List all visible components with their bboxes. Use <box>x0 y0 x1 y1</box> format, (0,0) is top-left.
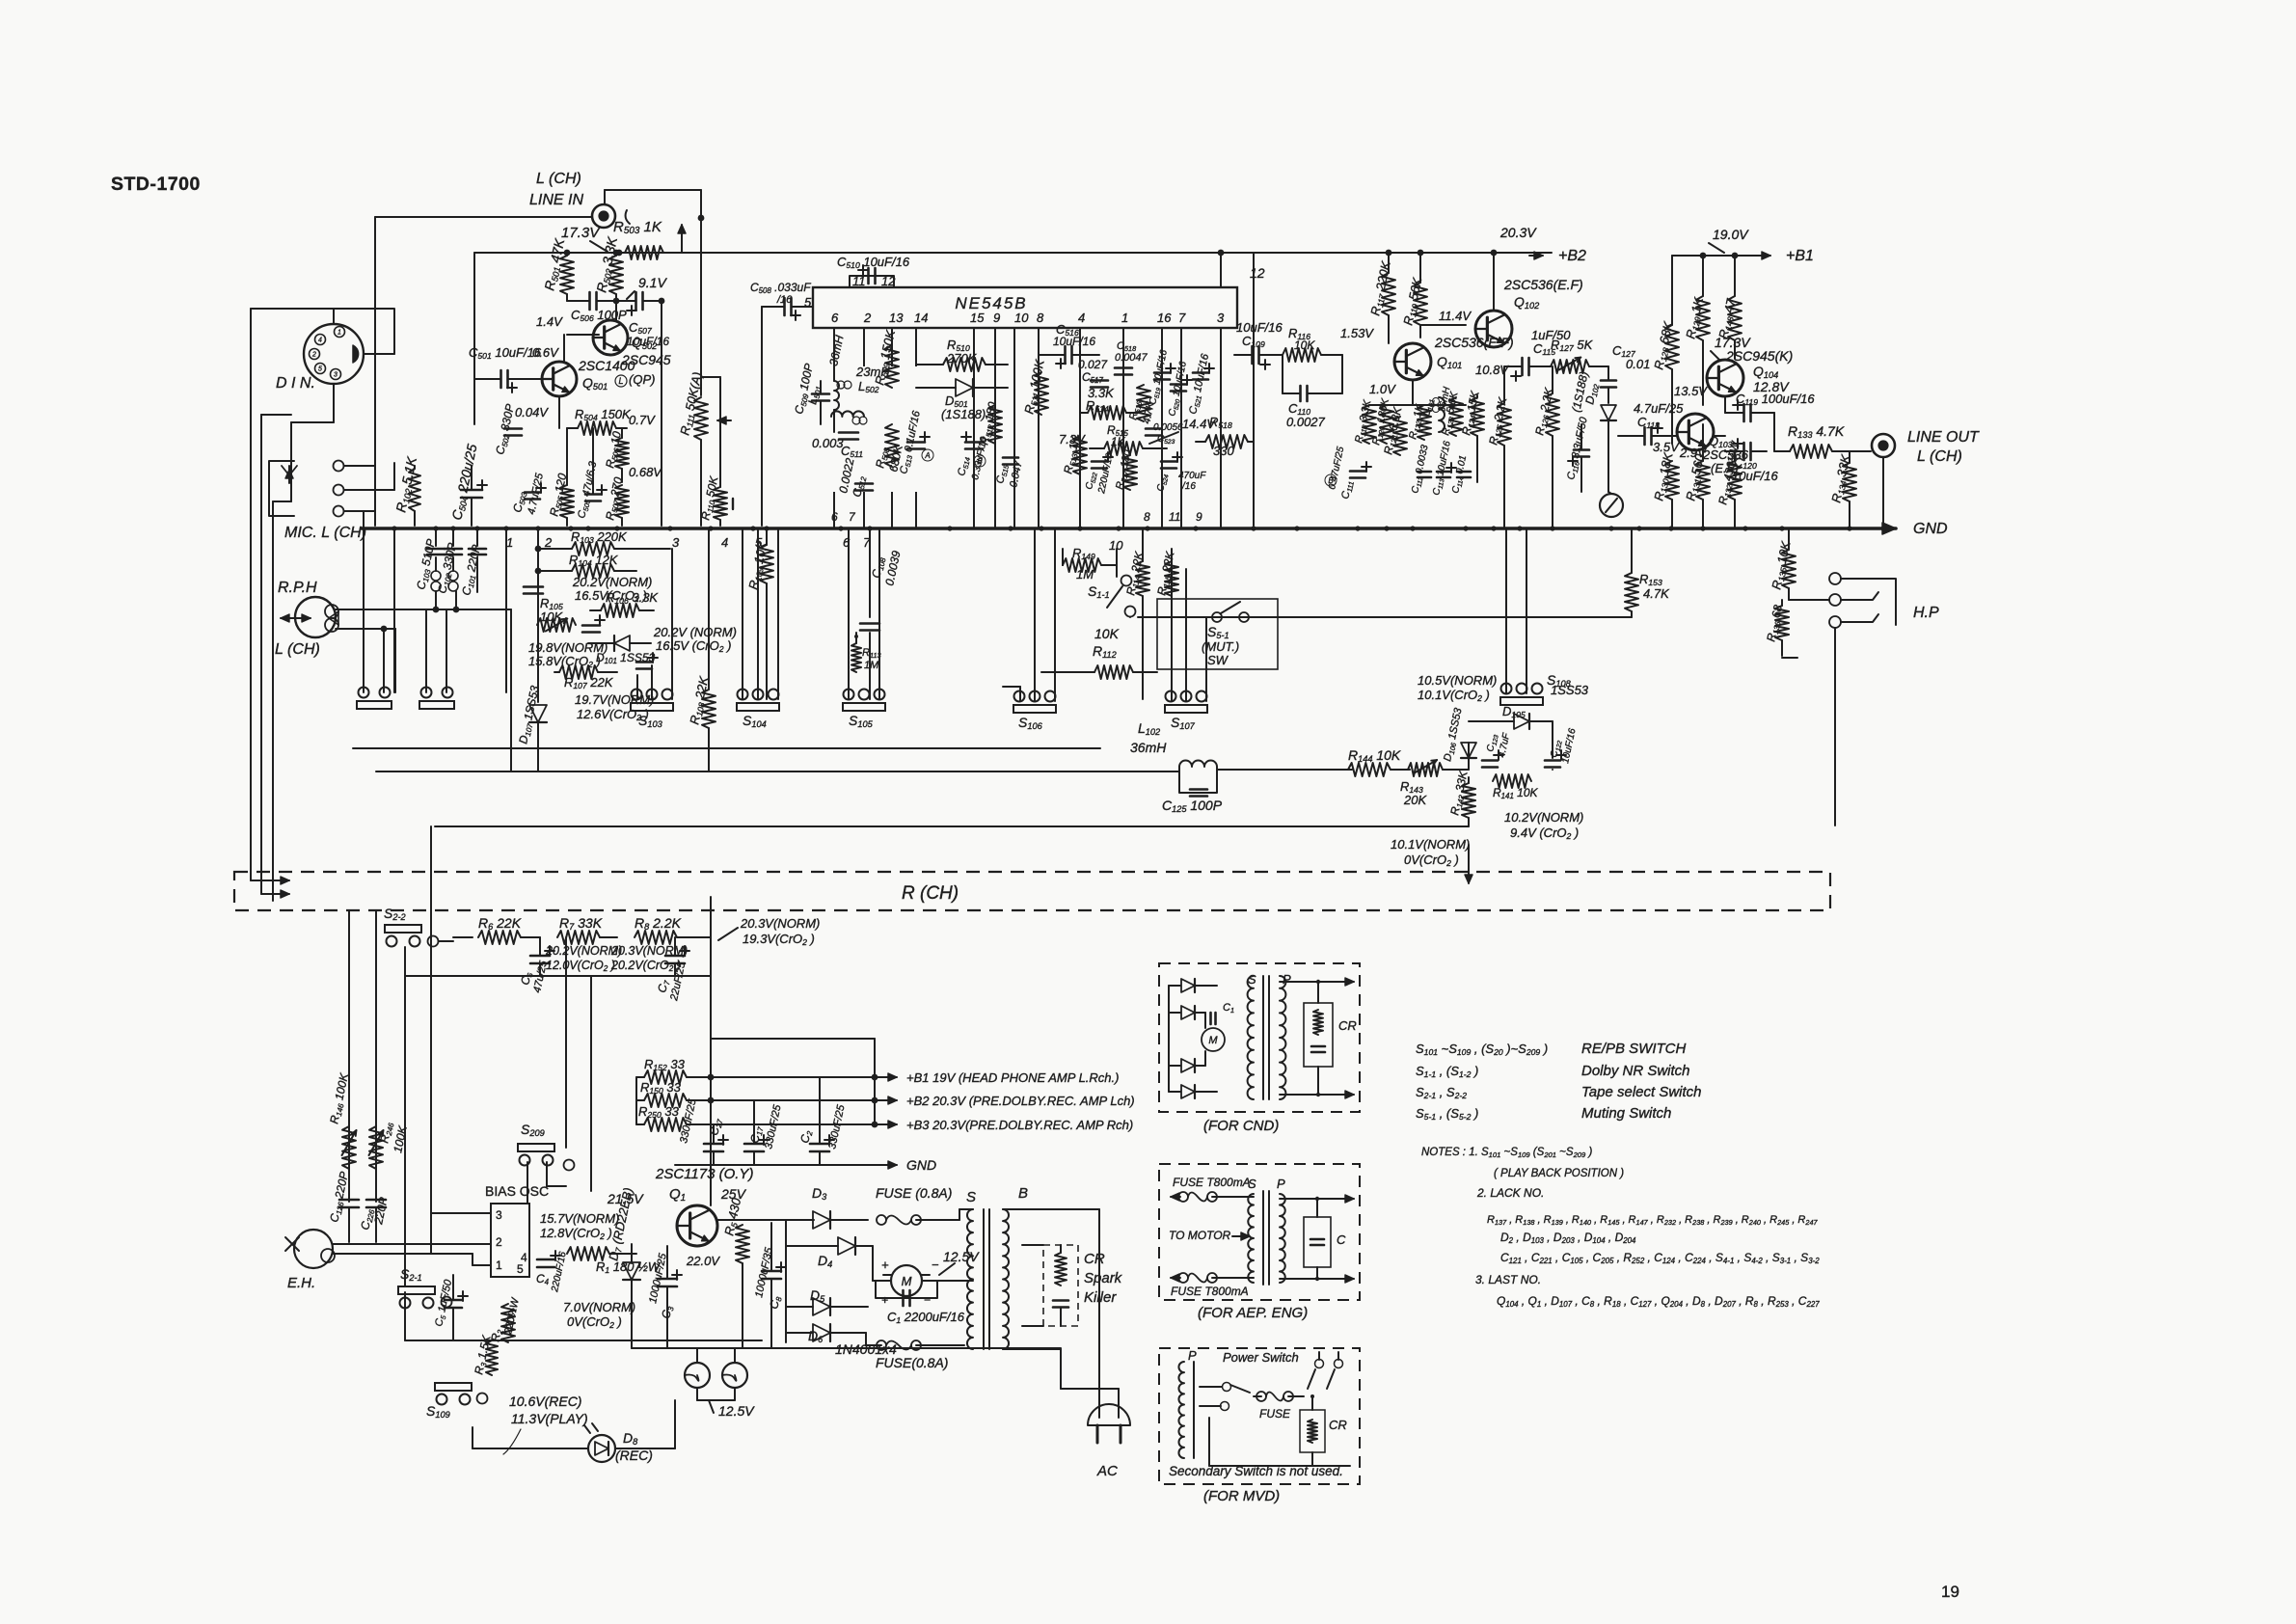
resistor R118 3.3K <box>1363 405 1376 444</box>
svg-text:TO MOTOR: TO MOTOR <box>1169 1229 1231 1242</box>
svg-text:2SC536(E.F): 2SC536(E.F) <box>1503 277 1583 292</box>
resistor R153 4.7K <box>1625 573 1638 611</box>
cnd arrows <box>1280 981 1348 983</box>
diode D105 1SS53 <box>1514 714 1529 729</box>
resistor R245 100K variable <box>369 1126 383 1169</box>
capacitor C102 330P <box>452 528 454 546</box>
svg-text:2SC945: 2SC945 <box>621 352 671 367</box>
wire bias osc pins <box>431 1212 491 1214</box>
capacitor C3 1000uF/25 <box>658 1278 677 1281</box>
resistor R105 10K variable <box>537 618 576 632</box>
svg-text:P: P <box>1283 972 1291 987</box>
resistor R130 18K <box>1665 461 1679 500</box>
capacitor C110 0.0027 <box>1299 386 1302 401</box>
wire under-bus verticals left <box>393 528 395 692</box>
resistor R124 15K <box>1471 397 1484 436</box>
capacitor C107 <box>636 661 652 663</box>
svg-text:5: 5 <box>318 366 322 373</box>
svg-text:3: 3 <box>1217 311 1225 325</box>
meter M1 <box>1600 494 1623 517</box>
capacitor C511 0.003 <box>839 431 858 434</box>
svg-text:10uF/16: 10uF/16 <box>1236 320 1283 335</box>
resistor R502 3.3K <box>609 256 623 294</box>
svg-text:(FOR CND): (FOR CND) <box>1203 1118 1279 1134</box>
resistor R123 5.6K <box>1449 397 1463 436</box>
svg-text:FUSE (0.8A): FUSE (0.8A) <box>876 1185 952 1201</box>
resistor R122 1K <box>1418 405 1431 440</box>
capacitor C501 10uF/16 <box>500 370 502 388</box>
wire diode bridge verticals <box>785 1220 787 1342</box>
capacitor C509 100P <box>812 392 829 395</box>
wire transformer to plug <box>1003 1208 1099 1210</box>
svg-text:FUSE(0.8A): FUSE(0.8A) <box>876 1355 948 1370</box>
svg-text:10.2V(NORM): 10.2V(NORM) <box>1504 810 1583 825</box>
svg-text:2. LACK NO.: 2. LACK NO. <box>1476 1186 1544 1200</box>
svg-text:3: 3 <box>496 1208 502 1222</box>
svg-text:11.3V(PLAY): 11.3V(PLAY) <box>511 1411 588 1426</box>
svg-text:9: 9 <box>993 311 1000 325</box>
resistor R3 1.5K <box>486 1340 498 1375</box>
resistor R517 180 <box>1123 455 1137 490</box>
svg-text:19: 19 <box>1941 1583 1959 1601</box>
svg-text:1: 1 <box>338 330 341 337</box>
svg-text:FUSE T800mA: FUSE T800mA <box>1171 1285 1249 1298</box>
transistor Q1 2SC1173 <box>677 1205 717 1246</box>
svg-text:6: 6 <box>831 311 839 325</box>
capacitor C119 100uF/16 <box>1742 404 1745 421</box>
capacitor C517 0.027 <box>1091 379 1108 382</box>
svg-text:4: 4 <box>318 338 322 344</box>
cnd CR network <box>1304 1003 1333 1067</box>
switch S107 <box>1165 705 1207 713</box>
resistor R134 33K <box>1843 463 1856 501</box>
jack LINE OUT <box>1872 434 1895 457</box>
capacitor C118 4.7uF/25 <box>1643 427 1646 445</box>
cnd P coil <box>1280 976 1285 1099</box>
svg-text:L (CH): L (CH) <box>536 171 581 187</box>
svg-text:−: − <box>932 1258 939 1272</box>
capacitor C515 0.047 <box>1003 456 1018 459</box>
resistor R514 3.3K <box>1088 406 1126 420</box>
resistor R119 56K <box>1414 283 1427 325</box>
svg-text:1M: 1M <box>864 660 879 671</box>
capacitor C109 10uF/16 <box>1251 346 1254 364</box>
svg-text:270K: 270K <box>946 351 978 365</box>
svg-text:+: + <box>881 1293 888 1307</box>
inset FOR MVD dashed box <box>1159 1348 1360 1484</box>
resistor R135 10K <box>1782 550 1796 588</box>
svg-text:7.3V: 7.3V <box>1059 432 1086 447</box>
diode D106 1SS53 <box>1468 743 1470 770</box>
capacitor C7 22uF/25 <box>665 955 685 958</box>
resistor R501 47K <box>560 256 574 294</box>
capacitor C120 10uF/16 <box>1742 443 1745 460</box>
arrow head left <box>281 617 311 619</box>
svg-text:20.3V(NORM): 20.3V(NORM) <box>740 916 820 931</box>
diodes D5 D6 <box>813 1298 830 1315</box>
svg-text:4.7K: 4.7K <box>1643 586 1670 601</box>
svg-text:2SC945(K): 2SC945(K) <box>1725 348 1793 364</box>
switch S104 <box>737 703 779 711</box>
resistor R127 5K variable <box>1551 360 1589 373</box>
resistor R149 1M <box>1063 558 1101 572</box>
svg-text:20.2V (NORM): 20.2V (NORM) <box>653 625 737 639</box>
resistor R136 68 <box>1775 606 1789 640</box>
switch S109 <box>435 1383 472 1391</box>
switch S1-1 dolby <box>1121 576 1132 586</box>
svg-text:+B1: +B1 <box>1786 248 1814 264</box>
svg-text:B: B <box>1018 1185 1028 1202</box>
resistor R133 4.7K <box>1790 445 1832 458</box>
resistor R141 10K <box>1493 774 1531 788</box>
svg-text:20.3V(NORM): 20.3V(NORM) <box>610 944 688 958</box>
diodes D3 D4 <box>813 1211 830 1229</box>
capacitor C508 .033uF/16 <box>783 298 786 315</box>
svg-text:R8 2.2K: R8 2.2K <box>635 915 682 932</box>
svg-text:R.P.H: R.P.H <box>278 580 317 596</box>
svg-text:9: 9 <box>1196 510 1202 524</box>
svg-text:3. LAST NO.: 3. LAST NO. <box>1475 1273 1541 1286</box>
svg-text:3: 3 <box>672 535 680 550</box>
resistor R132 430 1/2W <box>1728 461 1742 500</box>
resistor R102 5.1K <box>409 469 420 511</box>
svg-text:R106 3.3K: R106 3.3K <box>606 590 659 606</box>
band R(CH) dashed box <box>234 872 1830 910</box>
cnd bridge diodes <box>1181 979 1195 992</box>
capacitor C514 0.33uF/16 <box>965 441 983 444</box>
svg-text:R (CH): R (CH) <box>902 883 959 904</box>
svg-text:9.1V: 9.1V <box>638 275 667 290</box>
wire hp bracket <box>1841 579 1896 625</box>
zener D7 RD22EB <box>623 1262 640 1280</box>
motor M <box>891 1265 922 1296</box>
ground bus GND <box>362 527 1896 530</box>
svg-text:1.53V: 1.53V <box>1340 326 1374 340</box>
wire top rail 17.3V <box>474 252 1552 254</box>
resistor R112 10K <box>1094 665 1133 679</box>
power rail arrows right <box>879 1076 897 1078</box>
cnd core <box>1262 976 1264 1099</box>
resistor R506 10 <box>615 438 629 469</box>
capacitor C505 47u/6.3 <box>585 493 601 496</box>
cnd capacitor C1 <box>1209 1013 1212 1024</box>
svg-text:0.01: 0.01 <box>1626 357 1650 371</box>
connector DIN <box>304 324 364 384</box>
svg-text:LINE IN: LINE IN <box>529 192 583 208</box>
svg-text:330: 330 <box>1213 444 1234 458</box>
wire L102 line y800 <box>376 771 1179 772</box>
resistor R1 180 1/2W <box>567 1247 609 1260</box>
wire rail feed <box>635 1077 637 1124</box>
svg-text:(1S188): (1S188) <box>941 407 986 421</box>
capacitor C2 330uF/25 <box>810 1143 829 1146</box>
svg-text:LINE OUT: LINE OUT <box>1907 429 1980 446</box>
resistor R128 68K <box>1665 325 1679 369</box>
resistor R518 330 <box>1205 435 1248 448</box>
lamp PL2 <box>722 1363 747 1388</box>
transformer core <box>983 1209 985 1349</box>
switch S209 <box>518 1144 554 1151</box>
svg-text:SW: SW <box>1207 653 1229 667</box>
capacitor C1 2200uF/16 <box>902 1290 905 1306</box>
wire led row <box>472 1427 473 1448</box>
svg-text:0.04V: 0.04V <box>515 405 549 420</box>
svg-text:1: 1 <box>1121 311 1128 325</box>
wire S209 drop <box>527 1162 528 1204</box>
resistor R113 1M <box>851 643 861 672</box>
svg-text:20.2V(NORM): 20.2V(NORM) <box>572 575 652 589</box>
transistor Q501 2SC1400 <box>542 362 577 396</box>
aep S coil <box>1248 1194 1254 1283</box>
wire c10x drops <box>425 609 427 692</box>
svg-text:11.4V: 11.4V <box>1439 309 1472 323</box>
svg-text:2: 2 <box>544 535 553 550</box>
resistor R516 4.7K <box>1137 385 1150 421</box>
svg-text:2: 2 <box>863 311 872 325</box>
svg-text:2: 2 <box>496 1235 502 1249</box>
svg-text:R137 , R138 , R139 , R140 , R1: R137 , R138 , R139 , R140 , R145 , R147 … <box>1487 1214 1819 1227</box>
capacitor C518 0.0047 <box>1115 366 1132 369</box>
svg-text:Tape select Switch: Tape select Switch <box>1581 1084 1702 1100</box>
svg-text:CR: CR <box>1338 1018 1357 1033</box>
svg-text:0.003: 0.003 <box>812 436 844 450</box>
mvd switch contacts <box>1223 1383 1231 1392</box>
svg-text:3.5V: 3.5V <box>1653 440 1680 454</box>
wire q102 collector <box>1493 253 1495 311</box>
svg-text:BIAS OSC: BIAS OSC <box>485 1183 549 1199</box>
transistor Q102 2SC536 <box>1475 311 1512 347</box>
resistor R150 33 <box>644 1094 687 1107</box>
diode D102 1S188 <box>1601 405 1616 420</box>
capacitor C4 220uF/16 <box>537 1259 554 1261</box>
wire crossing band verticals <box>348 910 350 1202</box>
svg-text:10K: 10K <box>1294 338 1315 352</box>
svg-text:(FOR MVD): (FOR MVD) <box>1203 1488 1280 1504</box>
capacitor C519 C520 10uF/16 <box>1154 371 1170 374</box>
svg-text:RE/PB SWITCH: RE/PB SWITCH <box>1581 1041 1687 1057</box>
transformer T1 primary <box>1003 1209 1009 1349</box>
svg-text:+B2 20.3V (PRE.DOLBY.REC. AM: +B2 20.3V (PRE.DOLBY.REC. AMP Lch) <box>906 1094 1135 1108</box>
svg-text:4: 4 <box>721 535 728 550</box>
wire head top <box>336 609 511 610</box>
capacitor C108 0.0039 <box>869 528 871 617</box>
capacitor C6 47u/25 <box>530 955 550 958</box>
svg-text:12.5V: 12.5V <box>943 1249 980 1264</box>
resistor R507 270 <box>615 485 629 518</box>
capacitor C226 220P <box>366 1199 386 1202</box>
svg-text:MIC. L (CH): MIC. L (CH) <box>284 525 366 541</box>
svg-text:−: − <box>924 1293 931 1307</box>
svg-text:L (CH): L (CH) <box>1917 448 1962 465</box>
svg-text:4: 4 <box>521 1251 527 1264</box>
svg-text:10.5V(NORM): 10.5V(NORM) <box>1418 673 1497 688</box>
resistor R511 100K <box>1035 372 1048 415</box>
jack MIC L(CH) <box>269 461 294 516</box>
wire +B1 rail <box>1672 255 1765 257</box>
capacitor C5 1uF/50 <box>445 1299 462 1302</box>
svg-text:12.5V: 12.5V <box>718 1403 755 1419</box>
svg-text:0.027: 0.027 <box>1078 358 1108 371</box>
switch S108 <box>1500 697 1543 705</box>
inductor L102 36mH <box>1179 761 1217 768</box>
vertical 686 <box>661 301 662 526</box>
resistor R131 560 <box>1696 461 1710 500</box>
svg-text:14: 14 <box>914 311 928 325</box>
svg-text:13.5V: 13.5V <box>1674 384 1708 398</box>
capacitor C524 470uF/16 <box>1161 460 1176 463</box>
transistor Q104 2SC945K <box>1707 360 1743 396</box>
capacitor C122 10uF/16 <box>1545 759 1560 762</box>
switch S105 <box>843 703 885 711</box>
capacitor C27 330uF/25 <box>704 1143 723 1146</box>
svg-text:Dolby NR Switch: Dolby NR Switch <box>1581 1063 1690 1079</box>
svg-text:S: S <box>1248 972 1256 987</box>
switch S2-2 <box>385 925 421 933</box>
aep core <box>1262 1191 1264 1285</box>
wire top rail junctions <box>1386 250 1392 257</box>
wire R136 hp bottom <box>1782 657 1797 659</box>
diode D107 1SS53 <box>537 632 539 702</box>
svg-text:R7 33K: R7 33K <box>559 915 603 932</box>
resistor R104 12K <box>572 564 614 578</box>
svg-text:Q104 , Q1 , D107 , C8 , R18 ,: Q104 , Q1 , D107 , C8 , R18 , C127 , Q20… <box>1497 1294 1820 1309</box>
svg-text:17.3V: 17.3V <box>561 225 601 241</box>
lamp PL1 <box>685 1363 710 1388</box>
resistor R6 22K <box>478 931 521 944</box>
svg-text:STD-1700: STD-1700 <box>111 174 201 195</box>
resistor R116 10K <box>1283 348 1321 362</box>
svg-text:0V(CrO2 ): 0V(CrO2 ) <box>1404 853 1459 868</box>
resistor R509 150K <box>885 345 899 388</box>
wire r110 column <box>701 376 720 378</box>
led D8 REC <box>588 1435 615 1462</box>
svg-text:GND: GND <box>1913 521 1948 537</box>
svg-text:CR: CR <box>1084 1251 1105 1267</box>
wire line-in left <box>375 216 592 218</box>
transistor Q502 2SC945 <box>593 320 628 355</box>
svg-text:7: 7 <box>1178 311 1186 325</box>
resistor R114 22K <box>1136 561 1149 596</box>
resistor R512 180 <box>988 405 1002 444</box>
svg-text:H.P: H.P <box>1913 605 1939 621</box>
fuse FUSE(0.8A) bottom <box>877 1340 886 1350</box>
wire gnd rail bottom <box>675 1164 879 1166</box>
capacitor C523 0.0056 <box>1146 427 1161 430</box>
svg-text:10uF/16: 10uF/16 <box>1053 335 1095 348</box>
svg-text:1K: 1K <box>1111 435 1126 448</box>
resistor R143 20K variable <box>1408 763 1443 776</box>
svg-text:2SC1173 (O.Y): 2SC1173 (O.Y) <box>655 1166 753 1182</box>
capacitor C17 330uF/25 <box>744 1143 764 1146</box>
svg-text:0.0027: 0.0027 <box>1286 415 1326 429</box>
capacitor C510 10uF/16 over pins 11-12 <box>850 276 894 287</box>
resistor R142 33K <box>1462 783 1475 818</box>
resistor R152 33 <box>644 1070 687 1084</box>
svg-text:15: 15 <box>970 311 985 325</box>
svg-text:Killer: Killer <box>1084 1289 1117 1306</box>
resistor R515 1K <box>1104 442 1143 455</box>
inductor L501 L502 oscillator <box>816 366 932 492</box>
wire IC pin stubs <box>833 328 835 528</box>
svg-text:13: 13 <box>889 311 904 325</box>
wire vertical bus 2 <box>260 415 262 887</box>
wire bias bottom rail <box>405 1340 762 1341</box>
switch S106 <box>1013 705 1056 713</box>
svg-text:22.0V: 22.0V <box>686 1254 720 1268</box>
wire y857 <box>435 826 1469 827</box>
svg-text:M: M <box>1208 1035 1218 1046</box>
wire line-in top loop <box>605 189 701 191</box>
svg-text:E.H.: E.H. <box>287 1275 315 1291</box>
ic U501 NE545B <box>813 287 1237 328</box>
svg-text:(REC): (REC) <box>615 1448 653 1463</box>
capacitor C111 0.47uF/25 <box>1350 470 1365 473</box>
spark killer CR dashed box <box>1043 1245 1078 1326</box>
svg-text:0.68V: 0.68V <box>629 465 662 479</box>
inductor L101 36mH <box>1439 397 1445 432</box>
inset FOR CND dashed box <box>1159 963 1360 1112</box>
wire head bottom <box>336 628 395 630</box>
svg-text:S: S <box>1248 1177 1256 1191</box>
svg-text:D I N.: D I N. <box>276 375 315 392</box>
erase head E.H. <box>294 1230 333 1268</box>
capacitor C503 47uF <box>525 491 540 494</box>
svg-text:470uF: 470uF <box>1178 471 1206 481</box>
wire pin2 vertical <box>537 528 539 632</box>
capacitor C126 220P <box>339 1199 359 1202</box>
svg-text:15.7V(NORM): 15.7V(NORM) <box>540 1211 619 1226</box>
capacitor C115 1uF/50 <box>1521 358 1524 375</box>
svg-text:16: 16 <box>1157 311 1172 325</box>
resistor R117 220K <box>1382 273 1395 315</box>
resistor R120 180K <box>1380 405 1393 444</box>
wire S103 stubs <box>636 675 638 699</box>
resistor R125 2.2K <box>1498 403 1511 446</box>
wire DIN enclosure <box>251 309 394 354</box>
svg-text:FUSE T800mA: FUSE T800mA <box>1173 1176 1251 1189</box>
diode D101 1SS53 <box>614 636 630 651</box>
svg-text:0.0047: 0.0047 <box>1115 352 1148 364</box>
resistor R508 680K <box>885 424 899 467</box>
resistor R106 3.3K <box>601 604 639 617</box>
svg-text:GND: GND <box>906 1157 936 1173</box>
svg-text:7.0V(NORM): 7.0V(NORM) <box>563 1300 635 1314</box>
aep arrows <box>1280 1198 1348 1200</box>
switch S103 <box>631 703 673 711</box>
mvd P coil <box>1178 1362 1184 1458</box>
svg-text:R133 4.7K: R133 4.7K <box>1788 423 1845 440</box>
svg-text:3: 3 <box>334 372 338 379</box>
capacitor C513 0.1uF/16 <box>907 441 925 444</box>
svg-text:10.1V(NORM): 10.1V(NORM) <box>1391 837 1470 852</box>
resistor R144 10K <box>1348 763 1391 776</box>
wire bottom of caps <box>405 975 711 977</box>
wire long y640 <box>1138 616 1632 618</box>
svg-text:2: 2 <box>311 352 316 359</box>
wire q101 emitter bus <box>1412 380 1414 405</box>
svg-text:L: L <box>618 376 623 386</box>
wire s2-2 row <box>439 940 453 942</box>
wire q103 emitter <box>1714 435 1725 437</box>
mvd right switch poles <box>1315 1360 1324 1368</box>
capacitor C? pin2 <box>524 585 543 588</box>
svg-text:(QP): (QP) <box>629 372 655 387</box>
aep fuse bottom <box>1178 1273 1188 1283</box>
svg-text:R6 22K: R6 22K <box>478 915 522 932</box>
capacitor C8 1000uF/35 <box>762 1270 781 1273</box>
svg-text:36mH: 36mH <box>1130 740 1167 755</box>
svg-text:C125 100P: C125 100P <box>1162 798 1223 814</box>
